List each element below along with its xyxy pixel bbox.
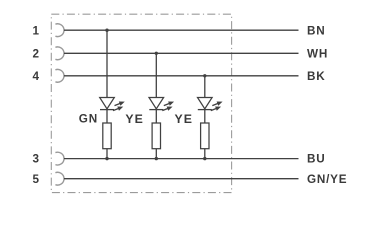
svg-text:YE: YE <box>125 112 143 126</box>
pin contact 3 <box>55 152 64 165</box>
wire pin5 GN/YE <box>64 178 299 180</box>
svg-text:BK: BK <box>307 70 325 83</box>
junction branch1-wire1 <box>105 29 108 32</box>
junction branch1-wire3 <box>105 157 108 160</box>
pin contact 2 <box>55 47 64 60</box>
LED D1 (GN) <box>100 98 126 113</box>
wire pin2 WH <box>64 52 299 54</box>
svg-text:3: 3 <box>32 153 39 166</box>
svg-text:1: 1 <box>32 24 39 37</box>
junction branch3-wire4 <box>203 74 206 77</box>
resistor R3 <box>201 123 209 149</box>
svg-text:5: 5 <box>32 173 39 186</box>
resistor R1 <box>103 123 111 149</box>
junction branch3-wire3 <box>203 157 206 160</box>
pin contact 4 <box>55 69 64 82</box>
resistor R2 <box>152 123 160 149</box>
pin contact 1 <box>55 24 64 37</box>
junction branch2-wire3 <box>155 157 158 160</box>
svg-text:GN: GN <box>79 113 98 126</box>
svg-text:4: 4 <box>32 70 39 83</box>
wire branch 3 vertical <box>204 76 206 159</box>
svg-text:YE: YE <box>175 112 193 126</box>
pin contact 5 <box>55 172 64 185</box>
wire branch 2 vertical <box>155 53 157 158</box>
junction branch2-wire2 <box>155 52 158 55</box>
wire pin4 BK <box>64 75 299 77</box>
wire pin3 BU <box>64 158 299 160</box>
LED D3 (YE) <box>198 98 224 113</box>
svg-text:BU: BU <box>307 153 325 166</box>
LED D2 (YE) <box>149 98 175 113</box>
svg-text:2: 2 <box>32 47 39 60</box>
svg-text:GN/YE: GN/YE <box>307 173 347 186</box>
wire branch 1 vertical <box>106 30 108 158</box>
svg-text:WH: WH <box>307 47 328 60</box>
svg-text:BN: BN <box>307 24 325 37</box>
wire pin1 BN <box>64 29 299 31</box>
enclosure dash-dot border <box>51 14 231 192</box>
